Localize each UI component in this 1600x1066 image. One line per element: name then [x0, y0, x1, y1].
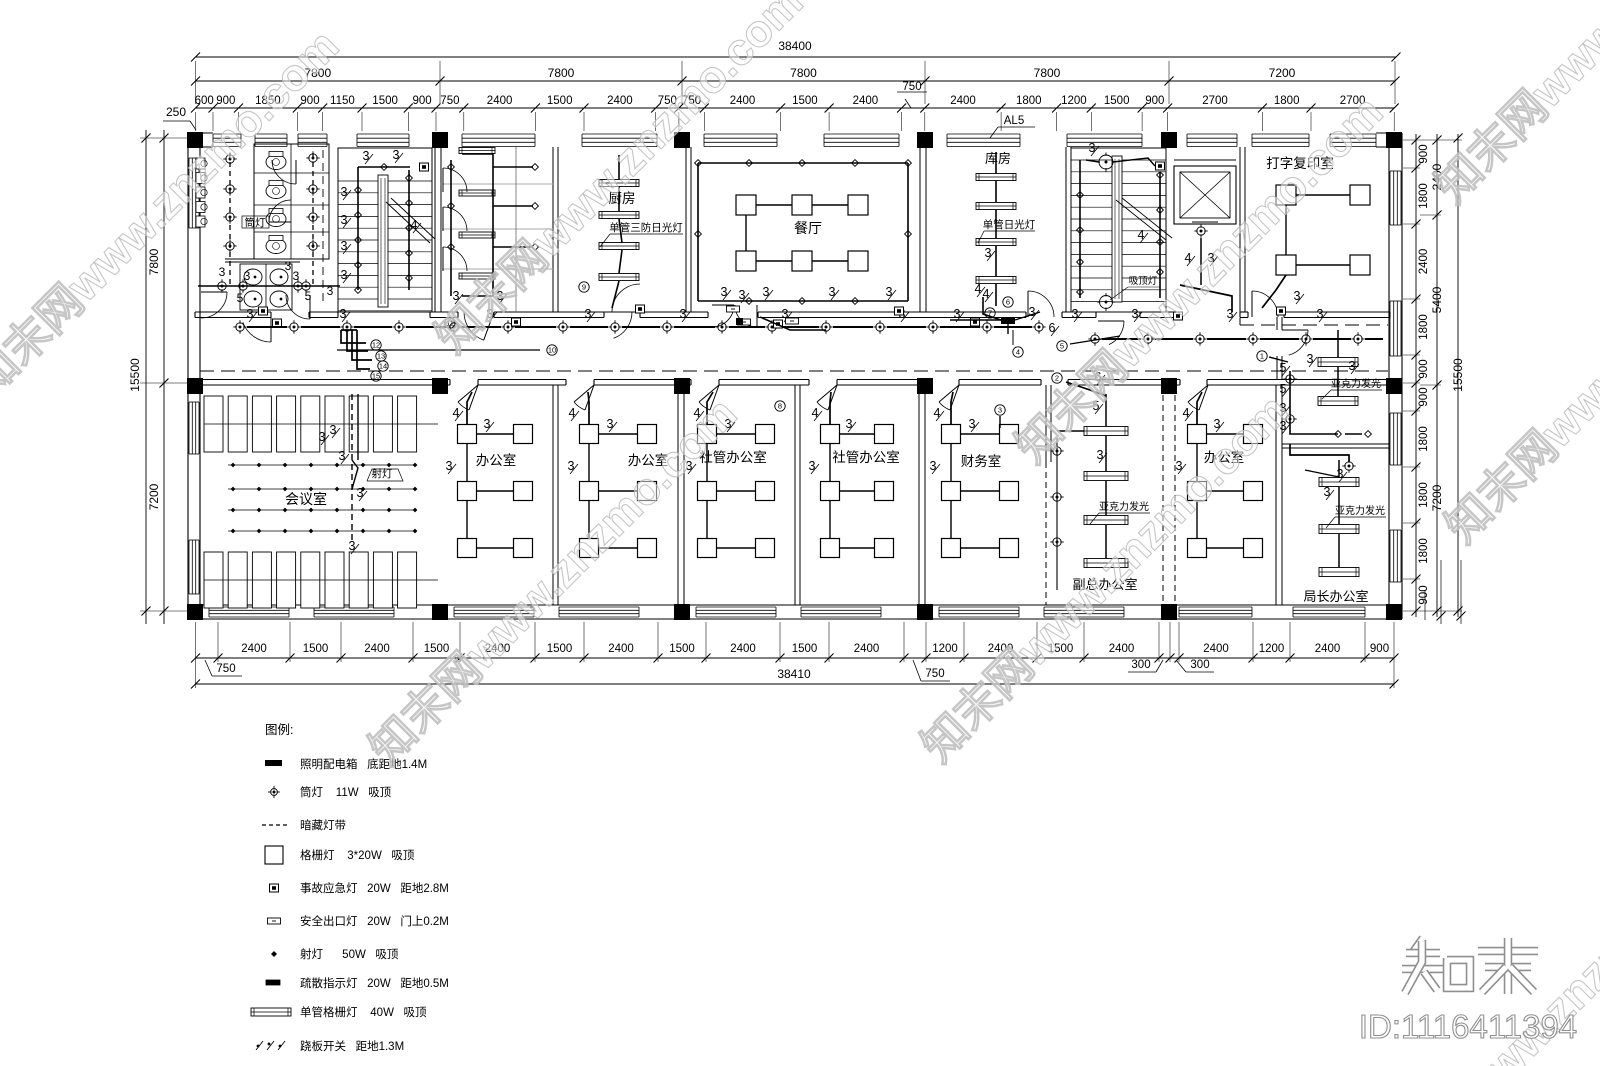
office 2 — [580, 425, 599, 444]
svg-text:3: 3 — [244, 269, 251, 283]
svg-text:局长办公室: 局长办公室 — [1303, 589, 1368, 604]
svg-text:3: 3 — [1307, 352, 1314, 366]
svg-text:3: 3 — [285, 259, 292, 273]
vestibule wall right — [1276, 317, 1278, 330]
toilet door top — [295, 160, 297, 184]
vestibule wires — [1290, 371, 1338, 434]
svg-text:3: 3 — [330, 423, 337, 437]
circ13 — [376, 351, 386, 361]
svg-text:餐厅: 餐厅 — [794, 220, 822, 236]
dim bottom right ext — [1424, 590, 1426, 620]
basin counter — [225, 258, 300, 260]
wall left — [187, 133, 189, 619]
office 4 — [821, 425, 840, 444]
toilet wire row — [198, 285, 340, 287]
svg-text:14: 14 — [379, 362, 387, 371]
stair1 emergency light — [420, 163, 429, 171]
dim bottom segments — [196, 657, 1395, 659]
svg-text:3: 3 — [339, 449, 346, 463]
bay2 partitions — [441, 183, 553, 185]
svg-text:10: 10 — [548, 346, 556, 355]
dim extension lines left — [140, 137, 196, 139]
director door wire — [1290, 444, 1349, 462]
svg-text:3: 3 — [607, 417, 614, 431]
dim overall top 38400 — [196, 56, 1397, 58]
svg-text:库房: 库房 — [985, 151, 1011, 166]
bay2 bar lights — [459, 148, 495, 154]
svg-text:3: 3 — [247, 307, 254, 321]
stair2 door — [1098, 320, 1124, 322]
svg-text:2400: 2400 — [1109, 643, 1135, 655]
svg-text:15500: 15500 — [128, 358, 142, 392]
svg-text:暗藏灯带: 暗藏灯带 — [300, 818, 346, 832]
office 3 — [698, 425, 717, 444]
svg-text:3: 3 — [829, 285, 836, 299]
svg-text:5: 5 — [1280, 361, 1287, 375]
svg-text:1500: 1500 — [792, 643, 818, 655]
svg-text:疏散指示灯 20W 距地0.5M: 疏散指示灯 20W 距地0.5M — [300, 976, 449, 990]
svg-text:1800: 1800 — [1274, 95, 1300, 107]
svg-text:9: 9 — [582, 283, 586, 292]
svg-text:1150: 1150 — [330, 95, 355, 107]
svg-text:12: 12 — [372, 341, 380, 350]
corridor door arcs upper — [270, 312, 272, 342]
bay2 doors — [442, 168, 444, 192]
legend evac light — [266, 980, 280, 985]
svg-text:吸顶灯: 吸顶灯 — [1129, 276, 1158, 287]
svg-text:社管办公室: 社管办公室 — [832, 449, 900, 465]
svg-text:单管三防日光灯: 单管三防日光灯 — [609, 221, 683, 234]
dim left 7800 7200 — [163, 130, 165, 624]
svg-text:2400: 2400 — [1203, 643, 1229, 655]
svg-text:2400: 2400 — [487, 95, 513, 107]
svg-text:格栅灯 3*20W 吸顶: 格栅灯 3*20W 吸顶 — [300, 848, 415, 862]
corridor wire mid — [760, 317, 826, 330]
svg-text:250: 250 — [166, 105, 186, 119]
svg-text:3: 3 — [1337, 467, 1344, 481]
copyroom door — [1251, 291, 1253, 317]
dim extension lines right — [1403, 167, 1420, 169]
svg-text:900: 900 — [1418, 387, 1430, 406]
dim overall bottom 38410 — [196, 683, 1395, 685]
svg-text:1800: 1800 — [1418, 482, 1430, 508]
circ12 — [371, 340, 381, 350]
svg-text:筒灯 11W 吸顶: 筒灯 11W 吸顶 — [300, 785, 392, 799]
svg-text:2700: 2700 — [1202, 95, 1228, 107]
dining exit light — [727, 306, 740, 312]
svg-text:4: 4 — [812, 406, 819, 420]
svg-text:3: 3 — [446, 459, 453, 473]
kitchen door — [612, 311, 640, 313]
svg-text:图例:: 图例: — [265, 723, 293, 737]
wall top lines partial — [195, 132, 213, 134]
toilet downlight chains — [229, 153, 231, 288]
toilet dashed partition — [322, 150, 324, 305]
svg-text:4: 4 — [1138, 228, 1145, 242]
svg-text:900: 900 — [1370, 643, 1389, 655]
wall bottom lines — [195, 604, 1394, 606]
svg-text:3: 3 — [1317, 307, 1324, 321]
director office bar lights — [1319, 478, 1359, 487]
svg-text:3: 3 — [1349, 359, 1356, 373]
svg-text:3: 3 — [1029, 305, 1036, 319]
corridor em light 1 — [259, 307, 268, 315]
dim extension lines bottom — [195, 622, 197, 662]
legend hidden strip — [262, 824, 290, 826]
svg-text:5: 5 — [237, 291, 244, 305]
office 1 — [458, 425, 477, 444]
svg-text:1800: 1800 — [1418, 538, 1430, 564]
dim top bays — [196, 80, 1396, 82]
interior walls bottom band — [552, 385, 554, 605]
svg-text:1800: 1800 — [1016, 95, 1042, 107]
meeting room wires — [351, 394, 353, 540]
svg-text:7200: 7200 — [1430, 484, 1444, 511]
svg-text:2400: 2400 — [950, 95, 976, 107]
svg-text:办公室: 办公室 — [476, 452, 517, 468]
svg-text:安全出口灯 20W 门上0.2M: 安全出口灯 20W 门上0.2M — [300, 914, 449, 928]
svg-text:1500: 1500 — [372, 95, 398, 107]
deputy door wire — [1066, 382, 1106, 396]
meeting room bottom louvres — [204, 552, 223, 608]
dim top segments — [196, 107, 1395, 109]
elevator lobby — [1239, 226, 1241, 312]
legend exit light — [268, 918, 281, 924]
svg-text:3: 3 — [1089, 141, 1096, 155]
svg-text:1500: 1500 — [792, 95, 818, 107]
svg-text:3: 3 — [568, 459, 575, 473]
corridor dashed right — [1240, 324, 1388, 326]
stair2 top light — [1099, 155, 1113, 169]
circ6 — [1003, 297, 1013, 307]
svg-text:1200: 1200 — [1259, 643, 1285, 655]
svg-text:3: 3 — [739, 288, 746, 302]
svg-text:1500: 1500 — [303, 643, 329, 655]
svg-text:3: 3 — [340, 307, 347, 321]
svg-text:900: 900 — [1145, 95, 1164, 107]
deputy office bar lights — [1084, 427, 1128, 436]
wash basins — [244, 269, 262, 285]
svg-text:财务室: 财务室 — [961, 453, 1002, 469]
svg-text:5: 5 — [305, 289, 312, 303]
svg-text:射灯 50W 吸顶: 射灯 50W 吸顶 — [300, 947, 399, 961]
svg-text:300: 300 — [1190, 659, 1209, 671]
svg-text:3: 3 — [357, 486, 364, 500]
office 7 — [1188, 425, 1207, 444]
svg-text:7800: 7800 — [790, 66, 817, 80]
elevator shaft — [1174, 166, 1236, 224]
logo zhimo — [1413, 938, 1423, 952]
svg-text:600: 600 — [195, 95, 214, 107]
dim right 2400 5400 7200 — [1436, 134, 1438, 617]
circ1 — [1257, 351, 1267, 361]
AL5 box — [1001, 317, 1015, 324]
legend single tube — [251, 1008, 291, 1016]
svg-text:3: 3 — [349, 539, 356, 553]
svg-text:4: 4 — [569, 406, 576, 420]
svg-text:900: 900 — [413, 95, 432, 107]
director office top wall — [1282, 443, 1389, 445]
svg-text:3: 3 — [846, 417, 853, 431]
svg-text:3: 3 — [341, 213, 348, 227]
wall top windows — [213, 133, 241, 135]
svg-text:1200: 1200 — [1061, 95, 1087, 107]
svg-text:3: 3 — [969, 417, 976, 431]
svg-text:300: 300 — [1131, 659, 1150, 671]
svg-text:3: 3 — [363, 149, 370, 163]
svg-text:2: 2 — [1055, 374, 1059, 383]
svg-text:3: 3 — [954, 307, 961, 321]
columns — [187, 132, 203, 148]
stair2 bottom light — [1100, 296, 1113, 309]
toilet door bottom-left — [201, 291, 227, 293]
svg-text:3: 3 — [327, 284, 334, 298]
svg-text:2400: 2400 — [607, 95, 633, 107]
svg-text:3: 3 — [721, 285, 728, 299]
copyroom grid lights — [1276, 185, 1296, 205]
svg-text:3: 3 — [1097, 448, 1104, 462]
svg-text:4: 4 — [453, 406, 460, 420]
svg-text:筒灯: 筒灯 — [245, 216, 266, 229]
svg-text:3: 3 — [393, 148, 400, 162]
wire to circ10 — [337, 349, 540, 351]
svg-text:2400: 2400 — [608, 643, 634, 655]
svg-text:3: 3 — [319, 430, 326, 444]
svg-text:亚克力发光: 亚克力发光 — [1331, 377, 1381, 390]
svg-text:4: 4 — [411, 218, 418, 232]
wall right — [1388, 133, 1390, 619]
svg-text:2400: 2400 — [730, 643, 756, 655]
svg-text:6: 6 — [1006, 298, 1010, 307]
legend distribution box — [265, 760, 282, 766]
svg-text:750: 750 — [925, 668, 944, 680]
stair 1 — [338, 148, 432, 312]
svg-text:会议室: 会议室 — [285, 491, 327, 507]
urinals — [196, 158, 205, 169]
svg-text:3: 3 — [219, 265, 226, 279]
circ15 — [371, 371, 381, 381]
svg-text:ID:1116411394: ID:1116411394 — [1359, 1008, 1577, 1045]
svg-text:1: 1 — [1260, 352, 1264, 361]
svg-text:3: 3 — [1072, 307, 1079, 321]
toilet fixtures — [266, 155, 286, 170]
svg-text:3: 3 — [484, 417, 491, 431]
svg-text:3: 3 — [763, 285, 770, 299]
dining doors — [712, 304, 734, 306]
svg-text:2400: 2400 — [854, 643, 880, 655]
stair2 wires — [1079, 160, 1081, 298]
corridor upper wall — [195, 311, 271, 313]
legend spotlight — [271, 951, 277, 957]
vestibule bar lights — [1318, 358, 1358, 367]
svg-text:3: 3 — [585, 307, 592, 321]
dim extension lines top — [195, 112, 197, 131]
svg-text:750: 750 — [902, 81, 921, 93]
svg-text:8: 8 — [778, 402, 782, 411]
meeting room top louvres — [204, 396, 223, 452]
svg-text:单管格栅灯 40W 吸顶: 单管格栅灯 40W 吸顶 — [300, 1005, 427, 1019]
copyroom door wire — [1180, 285, 1232, 312]
svg-text:6: 6 — [1049, 321, 1056, 335]
svg-text:1500: 1500 — [669, 643, 695, 655]
stair1 wires — [357, 167, 359, 290]
dining perimeter wire — [697, 163, 699, 301]
legend emergency light — [270, 884, 279, 892]
svg-text:1800: 1800 — [1418, 183, 1430, 209]
svg-text:1800: 1800 — [1418, 426, 1430, 452]
toilet door bottom — [309, 295, 311, 319]
svg-text:15500: 15500 — [1451, 358, 1465, 392]
corridor em light 2 — [512, 318, 521, 326]
svg-text:跷板开关 距地1.3M: 跷板开关 距地1.3M — [300, 1039, 404, 1053]
meeting room spotlight rows — [228, 464, 415, 466]
dim left 15500 — [145, 130, 147, 624]
svg-text:750: 750 — [216, 663, 235, 675]
corridor dashed ceiling — [200, 370, 1388, 372]
bay2 wires — [450, 160, 452, 296]
svg-text:5: 5 — [1280, 382, 1287, 396]
svg-text:7800: 7800 — [1034, 66, 1061, 80]
svg-text:2400: 2400 — [730, 95, 756, 107]
office 5 — [942, 425, 961, 444]
svg-text:13: 13 — [377, 352, 385, 361]
kitchen circ9 — [579, 282, 589, 292]
wc stall box — [254, 144, 329, 259]
corridor riser bundle — [347, 334, 368, 351]
vestibule door — [1282, 329, 1308, 331]
svg-text:2400: 2400 — [1418, 249, 1430, 275]
stair 2 — [1071, 148, 1166, 312]
svg-text:单管日光灯: 单管日光灯 — [983, 218, 1036, 231]
svg-text:7: 7 — [988, 309, 992, 318]
corridor lower wall — [195, 379, 450, 381]
svg-text:4: 4 — [975, 282, 982, 296]
corridor exit light 1 — [738, 319, 751, 325]
corridor em light 6 — [971, 318, 980, 326]
svg-text:3: 3 — [809, 459, 816, 473]
legend downlight — [271, 789, 278, 796]
dining grid lights — [736, 195, 756, 215]
deputy office downlights — [1053, 447, 1061, 455]
svg-text:亚克力发光: 亚克力发光 — [1335, 504, 1385, 517]
circ5 — [1057, 341, 1067, 351]
stair2 emergency light — [1156, 162, 1165, 170]
svg-text:1500: 1500 — [1104, 95, 1130, 107]
svg-text:900: 900 — [1418, 585, 1430, 604]
svg-text:2400: 2400 — [241, 643, 267, 655]
svg-text:900: 900 — [1418, 144, 1430, 163]
svg-text:2400: 2400 — [364, 643, 390, 655]
corridor downlight run right — [1091, 335, 1099, 343]
storeroom door — [1027, 291, 1029, 317]
svg-text:7200: 7200 — [147, 483, 161, 510]
svg-text:3: 3 — [341, 268, 348, 282]
toilet exit light — [273, 319, 282, 327]
svg-text:4: 4 — [1016, 348, 1020, 357]
svg-text:3: 3 — [341, 239, 348, 253]
AL5 wires — [983, 297, 1001, 320]
legend grid light — [265, 846, 283, 864]
svg-text:事故应急灯 20W 距地2.8M: 事故应急灯 20W 距地2.8M — [300, 881, 449, 895]
svg-text:15: 15 — [372, 372, 380, 381]
storeroom bar lights — [976, 174, 1016, 181]
corridor em light 4 — [774, 320, 783, 328]
svg-text:7200: 7200 — [1269, 66, 1296, 80]
svg-text:3: 3 — [1324, 485, 1331, 499]
office 5 circ3 — [995, 405, 1005, 415]
svg-text:38400: 38400 — [778, 39, 812, 53]
svg-text:750: 750 — [440, 95, 459, 107]
svg-text:4: 4 — [1183, 406, 1190, 420]
svg-text:3: 3 — [341, 185, 348, 199]
legend switch — [256, 1044, 260, 1048]
svg-text:5: 5 — [1060, 342, 1064, 351]
interior walls top band — [434, 147, 436, 312]
corridor em light 5 — [895, 307, 904, 315]
dim right 15500 — [1457, 134, 1459, 617]
circ4 — [1013, 347, 1023, 357]
svg-text:3: 3 — [886, 285, 893, 299]
svg-text:3: 3 — [293, 269, 300, 283]
corridor em light 7 — [1174, 312, 1183, 320]
svg-text:1800: 1800 — [1418, 314, 1430, 340]
svg-text:2400: 2400 — [853, 95, 879, 107]
svg-text:1200: 1200 — [932, 643, 958, 655]
office 3 circ8 — [775, 401, 785, 411]
copyroom wires — [1262, 275, 1286, 308]
svg-text:4: 4 — [934, 406, 941, 420]
corridor em light 3 — [636, 305, 645, 313]
svg-text:900: 900 — [1418, 359, 1430, 378]
svg-text:3: 3 — [680, 307, 687, 321]
svg-text:1500: 1500 — [547, 95, 573, 107]
svg-text:AL5: AL5 — [1004, 115, 1024, 127]
svg-text:3: 3 — [998, 406, 1002, 415]
svg-text:2400: 2400 — [1315, 643, 1341, 655]
toilet door mid — [269, 221, 291, 223]
kitchen bar lights — [599, 180, 639, 187]
svg-text:5400: 5400 — [1430, 286, 1444, 313]
circ11 — [445, 318, 455, 328]
svg-text:3: 3 — [985, 246, 992, 260]
svg-text:3: 3 — [1294, 289, 1301, 303]
corridor em light 8 — [1277, 307, 1286, 315]
svg-text:7800: 7800 — [548, 66, 575, 80]
circ14 — [378, 361, 388, 371]
svg-text:38410: 38410 — [777, 667, 811, 681]
circ7 — [985, 308, 995, 318]
dim right rooms — [1415, 134, 1417, 617]
svg-text:3: 3 — [930, 459, 937, 473]
corridor downlight run — [236, 323, 244, 331]
wall bottom windows — [209, 606, 289, 608]
svg-text:1500: 1500 — [547, 643, 573, 655]
